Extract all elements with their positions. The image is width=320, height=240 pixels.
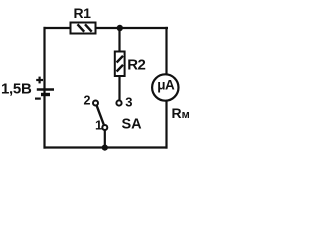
svg-text:SA: SA [122, 117, 143, 133]
battery GB (1,5 V cell): long positive plate [37, 88, 54, 90]
wire: R2 branch from top junction down to terminal 3 [118, 28, 120, 101]
svg-text:R1: R1 [74, 5, 92, 21]
svg-text:1: 1 [95, 118, 102, 133]
wire: left vertical (battery branch) [43, 27, 45, 149]
resistor R1 [71, 23, 96, 34]
resistor R2 [115, 52, 125, 77]
switch SA terminal 3 [116, 100, 121, 105]
wire: bottom horizontal [44, 146, 168, 148]
wire: stem from switch terminal 1 down to bottom wire [104, 128, 106, 148]
svg-text:R2: R2 [127, 57, 145, 74]
wire: top horizontal from left corner to right corner [44, 27, 169, 29]
wire: right vertical (meter branch) [165, 27, 167, 149]
battery minus sign [35, 97, 41, 99]
battery plus sign [36, 77, 43, 84]
node: junction dot after R1 [117, 25, 123, 31]
svg-text:1,5В: 1,5В [1, 81, 32, 98]
switch SA terminal 2 [93, 101, 98, 106]
svg-text:3: 3 [125, 95, 132, 110]
svg-text:μА: μА [157, 78, 175, 93]
svg-text:2: 2 [84, 93, 91, 107]
microammeter PA (µА) [152, 74, 178, 100]
node: junction dot on bottom wire [102, 145, 108, 151]
switch SA terminal 1 [102, 125, 107, 130]
battery short negative plate [41, 93, 50, 96]
switch SA lever from terminal 1 to terminal 2 [97, 105, 104, 124]
